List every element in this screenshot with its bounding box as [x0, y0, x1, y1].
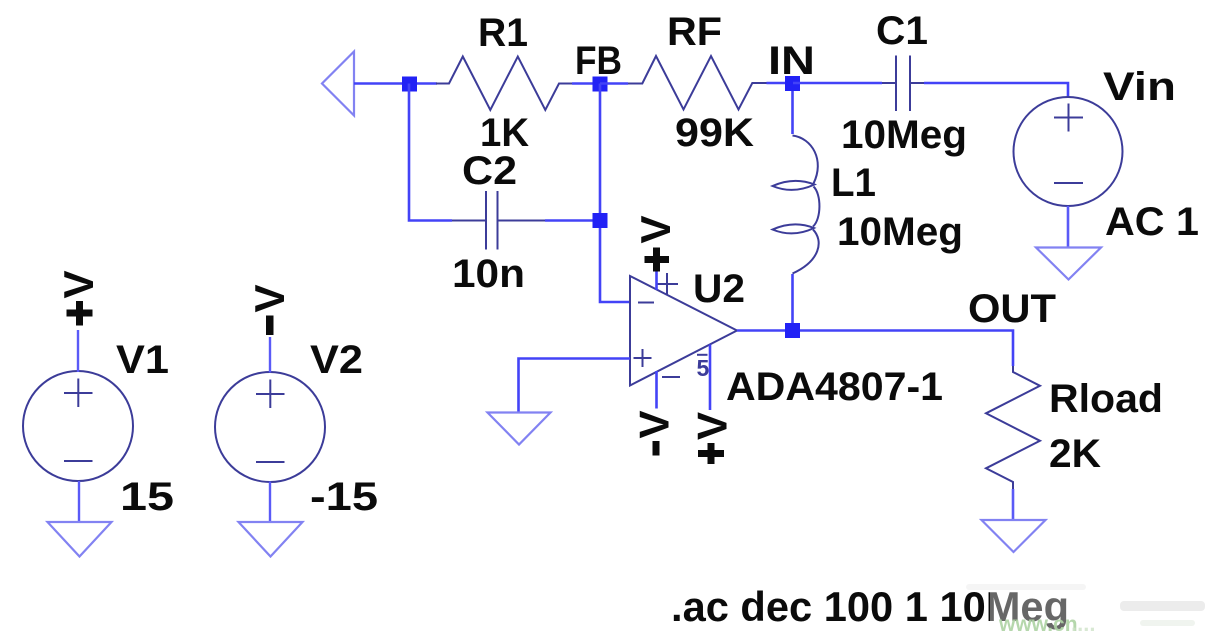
capacitor C2	[452, 191, 545, 250]
svg-text:5: 5	[697, 355, 710, 381]
svg-text:V: V	[631, 410, 678, 438]
svg-text:OUT: OUT	[968, 287, 1056, 331]
net label +V (op-amp top)	[632, 215, 679, 271]
node OUT junction	[785, 323, 800, 338]
wire: V2 bottom stub	[269, 482, 271, 523]
wire: FB vertical down to op-amp inverting input	[600, 84, 630, 303]
resistor Rload	[986, 366, 1040, 489]
svg-text:V: V	[55, 270, 102, 298]
wire: op-amp PD stub	[709, 345, 712, 411]
wire: C1 to Vin	[924, 83, 1068, 98]
voltage source Vin	[1014, 97, 1123, 206]
wire: op-amp output to OUT	[737, 331, 1013, 367]
svg-text:R1: R1	[478, 11, 528, 55]
net label +V (V1)	[55, 270, 102, 325]
voltage source V2	[215, 372, 325, 482]
ground (Rload)	[982, 520, 1046, 552]
wire: C2 branch vertical	[409, 84, 452, 221]
wire: RF to IN node	[767, 82, 794, 85]
node FB junction	[593, 77, 608, 92]
junction node (C2 / FB column)	[593, 213, 608, 228]
svg-text:L1: L1	[831, 161, 876, 205]
wire: Rload to ground	[1012, 489, 1015, 520]
svg-text:2K: 2K	[1049, 432, 1101, 476]
wire: V2 top stub	[269, 337, 271, 373]
wire: C2 to FB column	[545, 219, 600, 222]
ground (V2)	[239, 522, 303, 557]
svg-text:Vin: Vin	[1103, 65, 1176, 109]
ground (Vin)	[1036, 248, 1101, 280]
wire: noninverting input to ground	[519, 359, 631, 413]
inductor L1	[773, 136, 820, 274]
svg-text:V: V	[689, 412, 736, 440]
node IN junction	[785, 76, 800, 91]
watermark overlay	[966, 584, 1205, 633]
svg-text:C1: C1	[876, 9, 928, 53]
wire: left ground to R1 (node with junction)	[354, 82, 437, 85]
ground (op-amp + input)	[488, 413, 551, 445]
wire: IN down to L1	[791, 91, 794, 134]
net label -V (V2)	[246, 284, 293, 335]
svg-text:15: 15	[120, 475, 174, 519]
svg-text:Rload: Rload	[1049, 377, 1163, 421]
wire: V1 top stub	[77, 330, 79, 372]
wire: FB to RF	[600, 82, 628, 85]
wire: Vin to ground	[1067, 206, 1070, 248]
svg-text:IN: IN	[768, 39, 815, 83]
svg-text:....: ....	[1071, 611, 1095, 633]
svg-text:ADA4807-1: ADA4807-1	[726, 365, 943, 409]
capacitor C1	[882, 56, 924, 112]
net label +V (op-amp PD)	[689, 412, 736, 464]
wire: L1 down to OUT node	[791, 274, 794, 331]
svg-text:10n: 10n	[452, 252, 525, 296]
wire: IN to C1	[793, 82, 882, 85]
wire: op-amp V- stub	[655, 371, 658, 409]
svg-text:-15: -15	[310, 475, 378, 519]
svg-text:www.cn: www.cn	[998, 613, 1078, 633]
resistor RF	[628, 56, 767, 110]
svg-text:10Meg: 10Meg	[841, 113, 967, 157]
svg-text:V: V	[246, 284, 293, 312]
svg-text:V2: V2	[310, 338, 363, 382]
svg-text:U2: U2	[693, 267, 745, 311]
op-amp U2	[630, 273, 737, 386]
ground (left, rotated, at R1 left net)	[322, 52, 354, 116]
resistor R1	[436, 57, 572, 111]
voltage source V1	[23, 371, 133, 481]
junction node (R1 left / C2 branch)	[402, 77, 417, 92]
svg-text:C2: C2	[462, 149, 517, 193]
svg-text:AC 1: AC 1	[1105, 200, 1199, 244]
net label -V (op-amp bottom left)	[631, 410, 678, 455]
svg-text:10Meg: 10Meg	[837, 210, 963, 254]
wire: V1 bottom stub	[78, 481, 80, 522]
svg-text:FB: FB	[575, 39, 622, 83]
svg-text:V1: V1	[116, 338, 169, 382]
svg-text:99K: 99K	[675, 111, 754, 155]
ground (V1)	[48, 522, 112, 557]
svg-text:RF: RF	[667, 10, 722, 54]
svg-text:V: V	[632, 215, 679, 243]
wire: op-amp V+ stub	[655, 252, 658, 290]
wire: R1 to FB node	[572, 82, 600, 85]
